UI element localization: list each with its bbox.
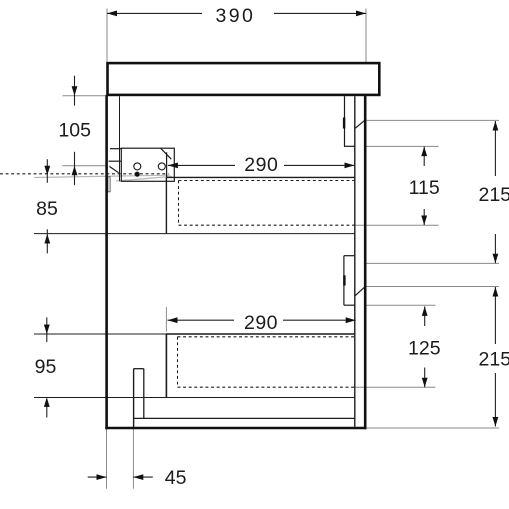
svg-text:95: 95 [35, 356, 57, 378]
svg-text:125: 125 [408, 337, 441, 359]
svg-text:290: 290 [244, 312, 278, 334]
svg-text:115: 115 [409, 177, 440, 199]
svg-text:105: 105 [58, 119, 91, 141]
svg-text:390: 390 [216, 5, 256, 27]
svg-text:45: 45 [165, 467, 187, 489]
svg-text:85: 85 [36, 198, 58, 220]
svg-text:215: 215 [479, 184, 509, 206]
svg-text:290: 290 [244, 154, 278, 176]
svg-text:215: 215 [479, 349, 509, 371]
